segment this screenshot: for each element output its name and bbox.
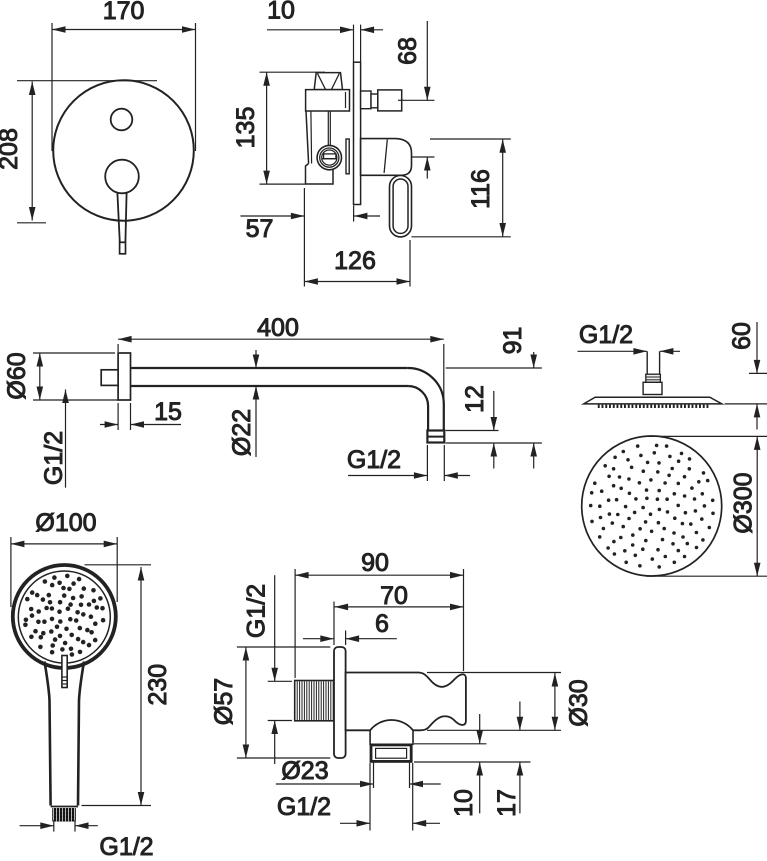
G1/2 elbow inlet ticks: [268, 680, 292, 682]
G1/2 outlet dim: [340, 822, 370, 824]
svg-text:6: 6: [375, 610, 389, 638]
dim 60 ticks: [749, 372, 767, 374]
elbow thread stub: [295, 681, 334, 721]
hand shower spray holes: [68, 617, 73, 622]
G1/2 hand shower dim: [20, 825, 54, 827]
dim O60 line: [39, 353, 41, 400]
dim 68 line: [426, 21, 428, 100]
G1/2 overhead dim: [578, 350, 647, 352]
svg-text:Ø23: Ø23: [281, 757, 328, 785]
dim 230 line: [140, 567, 142, 806]
outlet pipe below nut: [373, 762, 375, 789]
outlet extension lines: [369, 763, 371, 831]
valve body bottom: [306, 164, 334, 185]
svg-text:400: 400: [257, 314, 299, 342]
svg-text:Ø22: Ø22: [228, 409, 256, 456]
dim O57 line: [245, 647, 247, 758]
overhead nozzle ticks: [598, 405, 600, 408]
outlet pipe: [369, 730, 371, 745]
arm thread stub: [101, 370, 118, 386]
nut extension lines: [414, 743, 487, 745]
dim O300 extension lines: [646, 435, 767, 437]
elbow flange: [334, 647, 346, 758]
svg-text:Ø30: Ø30: [565, 679, 593, 726]
svg-text:17: 17: [493, 789, 521, 817]
lever handle: [117, 193, 119, 242]
overhead spray holes: [658, 508, 662, 512]
G1/2 elbow inlet dim: [274, 575, 276, 681]
svg-text:116: 116: [467, 169, 495, 209]
svg-text:126: 126: [334, 247, 376, 275]
G1/2 hand shower extension lines: [53, 820, 55, 832]
dim 10 line: [267, 29, 354, 31]
dim 10 elbow line: [479, 714, 481, 744]
dim 208 line: [31, 82, 33, 221]
svg-text:60: 60: [728, 322, 756, 350]
svg-text:10: 10: [450, 789, 478, 817]
dim O57 extension lines: [237, 646, 330, 648]
svg-text:Ø60: Ø60: [3, 352, 31, 399]
dim 135 extension lines: [260, 71, 326, 73]
dim 6 extension line: [345, 631, 347, 646]
mixer plate circle: [53, 80, 194, 221]
overhead face circle: [582, 436, 722, 576]
dim 91 extension lines: [446, 367, 542, 369]
svg-text:15: 15: [154, 398, 182, 426]
svg-text:G1/2: G1/2: [277, 793, 331, 821]
dim 400 line: [118, 338, 444, 340]
dim 91 line: [533, 352, 535, 368]
diverter knob: [361, 91, 371, 109]
G1/2 arm tip dim: [348, 475, 427, 477]
dim 12 line: [493, 391, 495, 431]
holder extension lines: [427, 672, 561, 674]
dim 15 extension lines: [117, 403, 119, 430]
overhead thread collar: [646, 374, 661, 382]
svg-text:57: 57: [246, 215, 274, 243]
handle body: [361, 139, 412, 176]
overhead nut: [643, 382, 662, 394]
dim 10 extension lines: [353, 25, 355, 62]
dim 15 line: [100, 424, 118, 426]
hand shower head face: [18, 571, 110, 663]
overhead stem: [646, 351, 648, 374]
dim 230 extension lines: [85, 564, 152, 566]
svg-text:10: 10: [267, 0, 295, 25]
hand shower switch slit: [62, 656, 67, 688]
dim O22 line: [255, 350, 257, 368]
dim 126 line: [304, 281, 410, 283]
dim 60 line: [756, 322, 758, 373]
wall plate edge view: [354, 62, 361, 204]
dim 116 line: [502, 139, 504, 236]
svg-text:G1/2: G1/2: [579, 321, 633, 349]
svg-text:135: 135: [232, 107, 260, 149]
knob centerline: [398, 99, 404, 101]
svg-text:Ø300: Ø300: [730, 472, 758, 533]
dim O60 extension lines: [33, 352, 115, 354]
dim 90 extension lines: [294, 569, 296, 678]
svg-text:G1/2: G1/2: [40, 431, 68, 485]
dim 90 line: [295, 574, 463, 576]
svg-text:68: 68: [394, 37, 422, 65]
svg-text:Ø100: Ø100: [35, 509, 96, 537]
handle extension lines: [430, 138, 511, 140]
svg-text:G1/2: G1/2: [99, 833, 153, 856]
dim 400 extension lines: [117, 344, 119, 352]
valve body column: [306, 111, 309, 164]
G1/2 arm wall leader: [65, 390, 67, 488]
lever loop inner: [393, 179, 408, 233]
dim 6 line: [303, 638, 334, 640]
svg-text:G1/2: G1/2: [243, 584, 271, 638]
lever base circle: [105, 160, 139, 194]
lever loop outer: [390, 176, 412, 237]
escutcheon disc edge: [346, 139, 349, 174]
dim 70 extension line: [333, 602, 335, 646]
valve body box: [306, 90, 350, 111]
dim O30 line: [554, 673, 556, 730]
dim 208 extension lines: [17, 80, 157, 82]
dim O300 line: [756, 436, 758, 576]
svg-text:91: 91: [499, 327, 527, 355]
svg-text:170: 170: [103, 0, 145, 25]
dim 126 extension lines: [303, 188, 305, 287]
elbow body and holder: [346, 673, 466, 731]
cartridge stem: [314, 73, 342, 90]
dim 12 extension line: [446, 430, 499, 432]
outlet nut: [371, 745, 411, 762]
svg-text:208: 208: [0, 128, 23, 170]
dim 57 extension line: [353, 206, 355, 222]
arm thread tip: [427, 431, 444, 443]
hand shower thread: [52, 808, 76, 822]
hand shower handle: [45, 662, 51, 806]
dim O100 line: [11, 543, 117, 545]
svg-text:G1/2: G1/2: [347, 446, 401, 474]
valve inlet circle: [317, 145, 341, 169]
diverter button circle: [111, 109, 133, 131]
svg-text:90: 90: [361, 549, 389, 577]
dim 70 line: [335, 606, 464, 608]
dim 68 ticks: [404, 99, 435, 101]
dim 17 line: [519, 702, 521, 731]
svg-text:230: 230: [144, 664, 172, 706]
arm flange: [118, 353, 130, 400]
hand shower head outer: [13, 565, 116, 668]
dim 135 line: [266, 72, 268, 184]
overhead head edge view: [584, 397, 722, 404]
G1/2 arm tip extension lines: [426, 445, 428, 481]
svg-text:Ø57: Ø57: [210, 678, 238, 725]
arm tube: [131, 367, 408, 369]
dim 170 extension lines: [51, 23, 53, 151]
svg-text:12: 12: [461, 385, 489, 413]
dim 170 line: [52, 29, 196, 31]
svg-text:70: 70: [380, 582, 408, 610]
dim O23 line: [276, 783, 374, 785]
dim O100 extension lines: [10, 537, 12, 607]
dim 57 line: [240, 215, 304, 217]
